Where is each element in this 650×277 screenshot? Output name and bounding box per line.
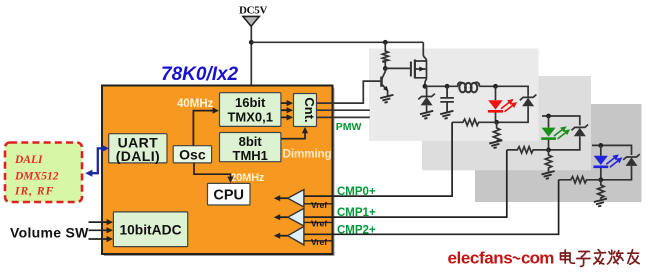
svg-text:TMH1: TMH1 [233, 148, 268, 163]
ground R2 [489, 140, 502, 148]
panel channel-2 (mid grey card) [422, 76, 591, 170]
svg-text:Osc: Osc [179, 146, 206, 162]
ground C1 [440, 111, 453, 119]
capacitor C1 [440, 86, 454, 111]
svg-text:20MHz: 20MHz [230, 172, 265, 184]
ground R6 [594, 199, 607, 207]
wire CMP0+ net [304, 122, 452, 196]
wire top rail ch3 [592, 145, 632, 155]
resistor R5 feedback ch2 [507, 147, 549, 153]
wire DC5V down to MCU [250, 26, 252, 85]
comparator CMP1 [288, 208, 304, 226]
svg-text:TMX0,1: TMX0,1 [227, 110, 273, 125]
box DALI/DMX512/IR,RF [5, 143, 82, 203]
wire rail to M1 source [423, 42, 426, 61]
node cap C1 [445, 84, 450, 89]
wire volume arrows [89, 222, 108, 239]
svg-text:Vref: Vref [311, 219, 327, 229]
wire node B to LED1 branch [425, 86, 528, 95]
wire Osc to 16bit timer [193, 111, 214, 146]
svg-text:CMP2+: CMP2+ [337, 224, 376, 236]
wire CMP2+ net [304, 180, 559, 235]
block UART (DALI) [109, 134, 167, 163]
ground D1 [420, 111, 433, 119]
block 16bit TMX0,1 [220, 93, 281, 127]
resistor R2 current sense [493, 122, 499, 141]
resistor R6 sense ch3 [598, 180, 604, 199]
wire M1 drain to node B [425, 78, 427, 87]
node LED1 anode [493, 84, 498, 89]
node LED2 cathode [546, 148, 551, 153]
comparator CMP2 [288, 227, 304, 245]
transistor M1 PMOS switch [410, 62, 412, 77]
diode D4 parallel zener ch3 [623, 154, 640, 160]
node LED3 cathode [598, 177, 603, 182]
svg-text:Volume SW: Volume SW [10, 225, 89, 241]
svg-text:DC5V: DC5V [239, 5, 267, 17]
LED1 red [495, 86, 497, 100]
wire PWM to base [380, 80, 381, 82]
block Osc [173, 146, 211, 163]
svg-text:DMX512: DMX512 [14, 170, 59, 182]
supply symbol triangle [243, 16, 259, 26]
inductor L1 [458, 82, 463, 86]
node LED3 anode [598, 143, 603, 148]
ground Q1 emitter [380, 95, 393, 103]
node A gate node [383, 66, 388, 71]
svg-text:com: com [521, 248, 554, 267]
block 8bit TMH1 [220, 133, 281, 162]
wire Cnt PWM output [317, 81, 381, 103]
svg-text:(DALI): (DALI) [116, 148, 160, 164]
panel channel-3 (dark grey card) [475, 104, 642, 202]
svg-text:16bit: 16bit [235, 95, 266, 110]
wire CMP1+ net [304, 150, 507, 217]
diode D2 parallel zener [527, 95, 529, 97]
node LED2 anode [546, 114, 551, 119]
LED2 green [548, 116, 550, 128]
svg-text:Cnt.: Cnt. [302, 97, 317, 122]
wire supply rail [251, 41, 423, 43]
svg-text:DALI: DALI [14, 154, 43, 166]
svg-text:Vref: Vref [311, 200, 327, 210]
block CPU [208, 183, 251, 205]
wire UART link (bidirectional blue) [91, 148, 104, 173]
node B switch output [423, 84, 428, 89]
wire 8bit TMH1 to Cnt (dimming) [281, 131, 305, 139]
wire top rail ch2 [542, 116, 580, 125]
svg-text:IR, RF: IR, RF [14, 185, 54, 197]
svg-text:78K0/Ix2: 78K0/Ix2 [161, 64, 239, 85]
resistor R4 sense ch2 [545, 150, 551, 172]
svg-text:elecfans: elecfans [448, 248, 513, 267]
svg-text:Vref: Vref [311, 237, 327, 247]
resistor R1 gate pull-up [382, 42, 388, 68]
svg-text:10bitADC: 10bitADC [119, 222, 181, 237]
panel channel-1 (light grey card) [369, 49, 539, 142]
MCU body 78K0/Ix2 [102, 86, 333, 255]
resistor R3 feedback [452, 119, 497, 125]
svg-text:Dimming: Dimming [283, 146, 332, 160]
chinese brand 电子发烧友 [561, 250, 640, 267]
svg-text:CMP1+: CMP1+ [337, 207, 376, 219]
transistor Q1 npn [382, 68, 385, 78]
wire Cnt output stub 3 [317, 116, 370, 118]
node supply junction [249, 40, 254, 45]
node LED1 cathode [494, 120, 499, 125]
svg-text:CMP0+: CMP0+ [337, 186, 376, 198]
block 10bitADC [113, 212, 187, 247]
LED3 blue [600, 145, 602, 155]
node rail-R1 [383, 40, 388, 45]
wire gate [385, 67, 410, 69]
svg-text:CPU: CPU [213, 187, 244, 203]
diode D3 parallel zener ch2 [572, 125, 589, 131]
svg-text:40MHz: 40MHz [177, 98, 214, 110]
diode D1 freewheel zener [426, 86, 428, 96]
ground R4 [542, 171, 555, 179]
comparator CMP0 [288, 190, 304, 208]
wire Osc to CPU [194, 163, 231, 178]
resistor R7 feedback ch3 [559, 177, 601, 183]
wire Cnt output stub 2 [317, 109, 370, 111]
MCU body shadow [104, 88, 335, 257]
svg-text:PMW: PMW [336, 121, 362, 133]
bus arrows 16bit to Cnt [281, 103, 287, 117]
block Cnt. [294, 94, 317, 127]
